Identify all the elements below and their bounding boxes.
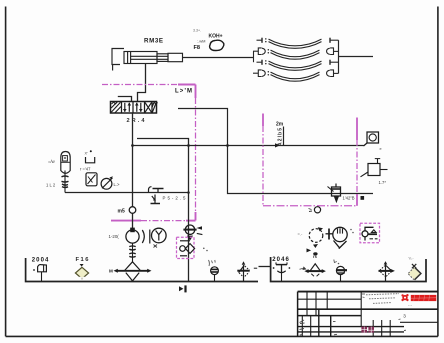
valve V2 reducing on W2 [328, 184, 341, 204]
svg-text:2004: 2004 [32, 258, 49, 264]
cooler group [309, 227, 347, 248]
svg-text:3: 3 [403, 313, 406, 318]
hose row4 [253, 72, 258, 74]
wire tank return upper [137, 139, 189, 146]
tank2 outline [271, 257, 426, 282]
magenta boundary M2 right vertical [195, 85, 197, 221]
svg-text:RM3E: RM3E [144, 38, 163, 45]
cylinder CYL1 [112, 49, 183, 71]
M8 internals [362, 227, 378, 240]
logo bar [411, 295, 437, 301]
svg-text:L.>: L.> [114, 182, 120, 187]
svg-text:=/w: =/w [48, 159, 56, 164]
svg-text:-..-: -..- [408, 303, 412, 307]
pump P1 [126, 228, 139, 243]
svg-text:KOH+: KOH+ [209, 33, 223, 39]
flexible hoses H1-H4 [253, 38, 373, 82]
suction filter FS1 [114, 262, 152, 281]
sampling diamond YD [408, 264, 421, 280]
svg-text:F8: F8 [194, 45, 201, 51]
node trunk-W3 [131, 144, 134, 147]
svg-text:F16: F16 [76, 257, 90, 263]
svg-text:2R.4: 2R.4 [127, 118, 146, 124]
svg-text:1-20(: 1-20( [109, 234, 120, 239]
svg-text:1 L 2: 1 L 2 [46, 183, 56, 188]
suction couplers below pump [129, 243, 135, 262]
shutoff diamond SD2 [379, 261, 395, 281]
tank1 outline [26, 258, 258, 282]
drain line to tank [65, 192, 189, 194]
air filter F16 [75, 257, 89, 279]
node m5 check ball [129, 207, 136, 214]
shutoff stack below accumulator [62, 171, 69, 193]
hose manifold verticals [253, 51, 255, 62]
test point TP1 [275, 122, 284, 148]
magenta box M7 check bypass [177, 237, 195, 258]
magenta box B right vertical M6 [356, 118, 358, 206]
flow valve FV on drain vertical [183, 225, 202, 241]
hose row2 [253, 50, 258, 52]
logo rosette [401, 294, 408, 301]
svg-text:X': X' [85, 152, 89, 156]
filler triangle TF [304, 264, 326, 276]
filter box F1 [86, 173, 97, 186]
gauge G1 with needle [101, 176, 113, 189]
wire cylinder port A step [138, 64, 146, 102]
magenta box B bottom M5 [263, 205, 357, 207]
node drain-W3 [187, 144, 190, 147]
title block [298, 292, 438, 337]
tank2 inlet stub [259, 266, 271, 268]
node W2-W3 junction [226, 144, 229, 147]
gauge box PG1 [364, 132, 379, 146]
hose row1 [257, 39, 263, 41]
svg-text:m5: m5 [118, 209, 125, 215]
pressure switch PS1 [361, 159, 388, 177]
svg-text:2m: 2m [276, 122, 284, 128]
svg-text:A2Ib5: A2Ib5 [278, 128, 284, 146]
svg-text:2046: 2046 [272, 257, 289, 263]
drain mark below tank1 [179, 286, 183, 291]
level gauge LG2 [336, 266, 347, 281]
magenta box B left vertical M4 [262, 114, 264, 206]
svg-text:e: e [380, 147, 382, 151]
wire trunk P valve to pump [132, 113, 134, 228]
coupling [142, 230, 150, 244]
wire W2 valve B line [178, 109, 373, 194]
hose row3 [257, 61, 263, 63]
red stamp text [361, 327, 374, 333]
svg-text::.wM: :.wM [197, 39, 205, 44]
svg-text:P5-2.5: P5-2.5 [163, 195, 187, 200]
svg-text:M: M [109, 269, 113, 274]
wire cylinder rod to hoses [183, 57, 254, 59]
motor M1 [152, 228, 167, 243]
wire valve port step B [118, 97, 132, 102]
tank symbol T1 on drain line [149, 187, 164, 204]
breather B1 [33, 265, 46, 282]
svg-text:r ='47: r ='47 [80, 167, 91, 172]
check bypass internals [180, 241, 195, 256]
svg-text:3.3+.: 3.3+. [193, 29, 201, 33]
svg-text:'n.-: 'n.- [409, 257, 415, 261]
breather B2 [273, 262, 291, 281]
svg-text:=.-: =.- [298, 232, 303, 237]
svg-text:1.7*: 1.7* [379, 180, 387, 185]
magenta boundary M3 bottom [111, 220, 196, 222]
label cloud note F8 [193, 29, 224, 52]
valve V1 4/3 directional [111, 102, 158, 114]
svg-text:rs: rs [313, 254, 318, 259]
circle on magenta M5 [314, 207, 320, 213]
svg-text:L>'M: L>'M [175, 89, 192, 95]
accumulator AC1 [61, 152, 70, 174]
level gauge LG1 [211, 267, 219, 282]
magenta boundary M1 top [102, 84, 196, 86]
title text scribbles [366, 294, 399, 304]
wire drain vertical to tank [188, 146, 190, 282]
shutoff diamond SD1 [237, 261, 257, 281]
magenta box M8 [360, 223, 380, 243]
bracket component X [86, 157, 95, 163]
svg-text:1'42"B: 1'42"B [343, 196, 355, 201]
wire W3 pressure line [132, 145, 364, 147]
